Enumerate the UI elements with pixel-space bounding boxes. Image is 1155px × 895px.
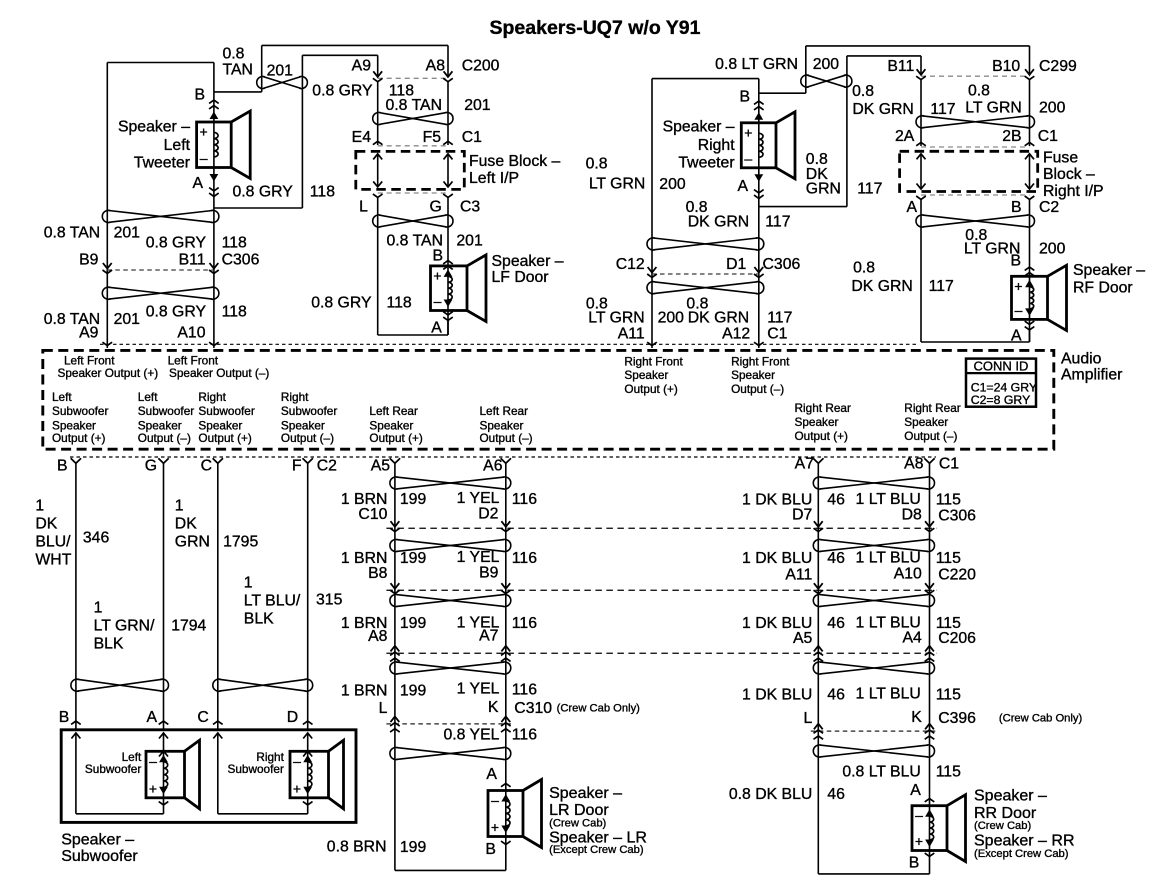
speaker U1: Left Tweeter symbol bbox=[197, 122, 232, 168]
wire: amp C to subwoofer box bbox=[217, 463, 219, 730]
wire: left rear speaker output (+) 1 BRN 199 bbox=[394, 463, 396, 870]
svg-text:+: + bbox=[491, 819, 499, 835]
svg-text:GRN: GRN bbox=[806, 180, 841, 197]
svg-text:116: 116 bbox=[512, 727, 537, 744]
svg-text:DK GRN: DK GRN bbox=[688, 310, 749, 327]
svg-text:Speaker Output (–): Speaker Output (–) bbox=[169, 366, 269, 380]
svg-text:Right: Right bbox=[198, 390, 226, 404]
wire: right rear speaker output (-) 1 LT BLU 115 bbox=[929, 463, 931, 874]
svg-text:C299: C299 bbox=[1039, 58, 1077, 75]
svg-text:TAN: TAN bbox=[223, 62, 253, 79]
svg-text:199: 199 bbox=[400, 615, 427, 632]
svg-text:DK GRN: DK GRN bbox=[852, 101, 913, 118]
svg-text:201: 201 bbox=[114, 311, 141, 328]
svg-text:L: L bbox=[804, 710, 813, 727]
svg-text:Speaker: Speaker bbox=[138, 418, 182, 432]
svg-text:A5: A5 bbox=[793, 630, 813, 647]
svg-text:A: A bbox=[906, 199, 917, 216]
svg-text:Speaker: Speaker bbox=[795, 415, 839, 429]
wire arrows entering subwoofer box bbox=[71, 733, 80, 739]
speaker: LR Door symbol bbox=[488, 791, 523, 837]
wire: LF door A return bbox=[447, 321, 449, 336]
svg-text:(Except Crew Cab): (Except Crew Cab) bbox=[974, 848, 1069, 860]
svg-text:200: 200 bbox=[1039, 100, 1066, 117]
svg-text:Output (+): Output (+) bbox=[795, 429, 849, 443]
svg-text:C1: C1 bbox=[1038, 128, 1058, 145]
svg-text:–: – bbox=[200, 150, 208, 166]
wire: LT GRN 200 down from B10 to fuse block 2B bbox=[1029, 80, 1031, 147]
svg-text:0.8 GRY: 0.8 GRY bbox=[311, 295, 372, 312]
svg-text:(Crew Cab Only): (Crew Cab Only) bbox=[557, 703, 641, 715]
svg-text:LT GRN: LT GRN bbox=[589, 176, 645, 193]
svg-text:0.8 GRY: 0.8 GRY bbox=[146, 235, 207, 252]
svg-text:1 DK BLU: 1 DK BLU bbox=[742, 687, 812, 704]
svg-text:Speaker –: Speaker – bbox=[663, 119, 735, 136]
svg-text:117: 117 bbox=[765, 213, 790, 230]
amp bottom mate line bbox=[70, 456, 936, 458]
svg-text:46: 46 bbox=[827, 615, 845, 632]
svg-text:C1: C1 bbox=[462, 129, 482, 146]
connector C310 mate line bbox=[386, 723, 514, 725]
svg-text:46: 46 bbox=[827, 492, 845, 509]
svg-text:Right Front: Right Front bbox=[624, 355, 683, 369]
svg-text:1794: 1794 bbox=[171, 618, 206, 635]
svg-text:C200: C200 bbox=[462, 57, 500, 74]
svg-text:Speaker: Speaker bbox=[904, 415, 948, 429]
wire: DK GRN 117 down from B11 to fuse block 2A bbox=[920, 80, 922, 147]
twisted pair LR row4 bbox=[396, 662, 504, 674]
wire: right rear speaker output (+) 1 DK BLU 46 bbox=[817, 463, 819, 874]
svg-text:0.8 TAN: 0.8 TAN bbox=[386, 97, 443, 114]
svg-text:C2: C2 bbox=[1039, 199, 1059, 216]
svg-text:Speaker –: Speaker – bbox=[118, 119, 190, 136]
svg-text:201: 201 bbox=[464, 97, 491, 114]
wire: run to connector C200 pin A9 bbox=[302, 54, 377, 56]
svg-text:DK: DK bbox=[175, 516, 197, 533]
svg-text:0.8: 0.8 bbox=[853, 259, 875, 276]
svg-text:B10: B10 bbox=[992, 58, 1020, 75]
svg-text:C306: C306 bbox=[763, 256, 801, 273]
svg-text:WHT: WHT bbox=[35, 552, 71, 569]
svg-text:0.8: 0.8 bbox=[586, 156, 608, 173]
svg-text:199: 199 bbox=[400, 683, 427, 700]
svg-text:118: 118 bbox=[310, 183, 335, 200]
svg-text:C12: C12 bbox=[616, 256, 645, 273]
svg-text:117: 117 bbox=[930, 101, 955, 118]
svg-text:A: A bbox=[431, 320, 442, 337]
svg-text:–: – bbox=[915, 807, 923, 823]
svg-text:A: A bbox=[910, 782, 921, 799]
svg-text:0.8: 0.8 bbox=[852, 83, 874, 100]
svg-text:A11: A11 bbox=[618, 326, 645, 343]
svg-text:Subwoofer: Subwoofer bbox=[52, 404, 108, 418]
fuse block right: top mate line bbox=[921, 146, 1030, 148]
wire: right rear bottom return bbox=[818, 873, 929, 875]
svg-text:115: 115 bbox=[936, 492, 961, 509]
svg-text:315: 315 bbox=[316, 592, 343, 609]
svg-text:Tweeter: Tweeter bbox=[678, 155, 734, 172]
svg-text:LT GRN/: LT GRN/ bbox=[94, 618, 155, 635]
svg-text:+: + bbox=[149, 780, 157, 796]
svg-text:Fuse: Fuse bbox=[1043, 149, 1078, 166]
svg-text:Speaker: Speaker bbox=[480, 418, 524, 432]
svg-text:D7: D7 bbox=[792, 506, 812, 523]
connector mate line row3 (A8/A7 - A5/A4) bbox=[386, 652, 936, 654]
twisted pair RR row4 bbox=[820, 662, 928, 674]
svg-text:(Crew Cab): (Crew Cab) bbox=[549, 817, 606, 829]
fuse block right: bottom mate line and terminals A B bbox=[921, 194, 1030, 196]
connector mate line row2 (B8/B9 - A11/A10) bbox=[386, 589, 936, 591]
svg-text:117: 117 bbox=[929, 278, 954, 295]
svg-text:Speaker –: Speaker – bbox=[61, 832, 134, 849]
svg-text:A7: A7 bbox=[479, 627, 498, 644]
wire: B down from right fuse to RF door B bbox=[1029, 199, 1031, 342]
svg-text:115: 115 bbox=[936, 764, 961, 781]
svg-text:199: 199 bbox=[400, 839, 427, 856]
svg-text:BLK: BLK bbox=[244, 611, 274, 628]
svg-text:C2: C2 bbox=[317, 458, 337, 475]
wire: subwoofer internal right loop bbox=[217, 733, 219, 814]
speaker: Left Subwoofer symbol bbox=[159, 751, 168, 757]
svg-text:–: – bbox=[1015, 302, 1023, 318]
svg-text:(Crew Cab): (Crew Cab) bbox=[974, 820, 1031, 832]
svg-text:200: 200 bbox=[1039, 240, 1066, 257]
svg-text:A12: A12 bbox=[722, 326, 750, 343]
wire: right tweeter B to twisted pair (0.8 LT GRN 200) bbox=[759, 92, 806, 94]
svg-text:B: B bbox=[194, 87, 205, 104]
svg-text:118: 118 bbox=[222, 235, 247, 252]
svg-text:1 LT BLU: 1 LT BLU bbox=[856, 686, 921, 703]
svg-text:C396: C396 bbox=[938, 710, 976, 727]
svg-text:B: B bbox=[432, 248, 443, 265]
wire: right side of right loop bbox=[758, 79, 760, 348]
svg-text:118: 118 bbox=[387, 295, 412, 312]
svg-text:Amplifier: Amplifier bbox=[1061, 367, 1122, 384]
svg-text:201: 201 bbox=[267, 63, 294, 80]
svg-text:Subwoofer: Subwoofer bbox=[85, 762, 141, 776]
svg-text:Left I/P: Left I/P bbox=[469, 170, 519, 187]
svg-text:Output (+): Output (+) bbox=[52, 431, 106, 445]
svg-text:LT GRN: LT GRN bbox=[588, 310, 644, 327]
svg-text:1: 1 bbox=[94, 600, 103, 617]
speaker subwoofer enclosure box bbox=[61, 730, 356, 823]
twisted pair LR row3 bbox=[396, 595, 504, 607]
wire: A down from right fuse to RF door return bbox=[920, 199, 922, 342]
svg-text:117: 117 bbox=[767, 310, 792, 327]
svg-text:Output (–): Output (–) bbox=[480, 431, 533, 445]
svg-text:201: 201 bbox=[114, 225, 141, 242]
svg-text:C1: C1 bbox=[939, 455, 959, 472]
svg-text:A4: A4 bbox=[902, 629, 922, 646]
svg-text:A: A bbox=[737, 178, 748, 195]
svg-text:116: 116 bbox=[512, 615, 537, 632]
wire: GRY 118 down from A9 to fuse block E4 bbox=[377, 82, 379, 145]
twisted pair RR row1 bbox=[820, 477, 928, 489]
svg-text:A: A bbox=[486, 766, 497, 783]
svg-text:A5: A5 bbox=[371, 458, 391, 475]
svg-text:Subwoofer: Subwoofer bbox=[61, 848, 138, 865]
svg-text:C3: C3 bbox=[460, 199, 480, 216]
twisted pair between C299 and 2A/2B bbox=[923, 116, 1029, 128]
twisted pair subwoofer left pair bbox=[77, 679, 162, 691]
svg-text:Output (+): Output (+) bbox=[624, 382, 678, 396]
svg-text:Speaker: Speaker bbox=[731, 368, 775, 382]
svg-text:L: L bbox=[379, 700, 388, 717]
speaker: Right Subwoofer symbol bbox=[303, 751, 312, 757]
wire: run to connector C299 pin B11 bbox=[847, 55, 921, 57]
svg-text:1 BRN: 1 BRN bbox=[341, 683, 388, 700]
twisted pair RR row5 bbox=[820, 745, 928, 757]
svg-text:201: 201 bbox=[456, 233, 483, 250]
wire: amp G to subwoofer box bbox=[163, 463, 165, 730]
svg-text:B11: B11 bbox=[887, 58, 914, 75]
svg-text:200: 200 bbox=[659, 176, 686, 193]
twisted pair RR row2 bbox=[820, 540, 928, 552]
wire: right tweeter A branch (0.8 DK GRN 117) bbox=[759, 206, 847, 208]
svg-text:Right I/P: Right I/P bbox=[1043, 183, 1104, 200]
svg-text:Right Rear: Right Rear bbox=[904, 401, 960, 415]
twisted pair LR row2 bbox=[396, 540, 504, 552]
wire: right side of left loop bbox=[213, 63, 215, 349]
twisted pair on right column (lower) bbox=[654, 282, 758, 294]
wire: left rear speaker output (-) 1 YEL 116 bbox=[505, 463, 507, 870]
svg-text:B: B bbox=[909, 855, 920, 872]
svg-text:D8: D8 bbox=[902, 506, 922, 523]
svg-text:Speaker –: Speaker – bbox=[974, 788, 1047, 805]
wire: left loop of right tweeter bbox=[651, 79, 653, 348]
svg-text:B: B bbox=[485, 841, 496, 858]
svg-text:Speaker Output (+): Speaker Output (+) bbox=[58, 366, 159, 380]
twisted pair LR row5 bbox=[396, 748, 504, 760]
connector mate line row1 (C10/D2 - D7/D8) bbox=[386, 527, 936, 529]
fuse block - right I/P dashed box bbox=[900, 151, 1038, 191]
speaker U2: Right Tweeter symbol bbox=[741, 123, 776, 168]
svg-text:Right Front: Right Front bbox=[731, 355, 790, 369]
svg-text:Right: Right bbox=[698, 137, 735, 154]
wire: L down to LF door A bbox=[377, 197, 379, 335]
svg-text:+: + bbox=[200, 124, 208, 140]
svg-text:D2: D2 bbox=[478, 505, 498, 522]
svg-text:A8: A8 bbox=[426, 57, 446, 74]
wire: top run to connector C200 pin A8 bbox=[262, 44, 448, 46]
twisted pair symbol right top bbox=[807, 75, 845, 87]
svg-text:LF Door: LF Door bbox=[492, 269, 549, 286]
svg-text:+: + bbox=[915, 833, 923, 849]
svg-text:0.8 LT BLU: 0.8 LT BLU bbox=[842, 764, 920, 781]
svg-text:K: K bbox=[911, 709, 922, 726]
svg-text:Output (–): Output (–) bbox=[281, 431, 334, 445]
svg-text:B11: B11 bbox=[179, 252, 206, 269]
svg-text:0.8: 0.8 bbox=[968, 82, 990, 99]
svg-text:118: 118 bbox=[222, 304, 247, 321]
svg-text:C10: C10 bbox=[358, 506, 387, 523]
svg-text:199: 199 bbox=[400, 550, 427, 567]
connector C306 mate line and terminals bbox=[107, 269, 214, 271]
wire: tweeter A branch to 0.8 GRY 118 bbox=[214, 207, 303, 209]
svg-text:Speakers-UQ7 w/o Y91: Speakers-UQ7 w/o Y91 bbox=[490, 17, 701, 39]
svg-text:F: F bbox=[292, 458, 302, 475]
amp entry mate line (A9..A12) bbox=[100, 343, 918, 345]
fuse block - left I/P dashed box bbox=[356, 151, 465, 189]
svg-text:C306: C306 bbox=[938, 507, 976, 524]
svg-text:Output (–): Output (–) bbox=[138, 431, 191, 445]
svg-text:Output (+): Output (+) bbox=[369, 431, 423, 445]
connector C306 right mate line and terminals bbox=[652, 273, 759, 275]
svg-text:0.8 DK BLU: 0.8 DK BLU bbox=[729, 786, 812, 803]
svg-text:Output (–): Output (–) bbox=[731, 382, 784, 396]
svg-text:Right: Right bbox=[281, 390, 309, 404]
svg-text:F5: F5 bbox=[423, 129, 442, 146]
svg-text:B9: B9 bbox=[79, 252, 99, 269]
svg-text:CONN ID: CONN ID bbox=[974, 359, 1029, 374]
svg-text:Subwoofer: Subwoofer bbox=[227, 762, 283, 776]
svg-text:1: 1 bbox=[175, 498, 184, 515]
svg-text:46: 46 bbox=[827, 550, 845, 567]
svg-text:1: 1 bbox=[35, 498, 44, 515]
svg-text:C306: C306 bbox=[222, 252, 260, 269]
svg-text:–: – bbox=[491, 792, 499, 808]
wire: tweeter B to twisted pair (0.8 TAN 201) bbox=[214, 91, 262, 93]
svg-text:C206: C206 bbox=[938, 630, 976, 647]
svg-text:–: – bbox=[434, 293, 442, 309]
svg-text:C2=8 GRY: C2=8 GRY bbox=[971, 393, 1031, 407]
svg-text:Speaker –: Speaker – bbox=[1073, 262, 1145, 279]
svg-text:0.8: 0.8 bbox=[223, 46, 245, 63]
svg-text:46: 46 bbox=[827, 687, 845, 704]
svg-text:A6: A6 bbox=[483, 458, 503, 475]
svg-text:Speaker: Speaker bbox=[281, 418, 325, 432]
svg-text:B: B bbox=[59, 709, 70, 726]
svg-text:46: 46 bbox=[827, 786, 845, 803]
svg-text:–: – bbox=[293, 753, 301, 769]
svg-text:C310: C310 bbox=[514, 700, 552, 717]
svg-text:+: + bbox=[1014, 278, 1022, 294]
svg-text:D1: D1 bbox=[726, 256, 746, 273]
twisted pair on left column (lower) bbox=[109, 287, 213, 299]
svg-text:Left: Left bbox=[138, 390, 158, 404]
twisted pair symbol: 0.8 TAN 201 / 0.8 GRY 118 bbox=[263, 77, 301, 89]
svg-text:Speaker: Speaker bbox=[198, 418, 242, 432]
svg-text:GRN: GRN bbox=[175, 534, 210, 551]
wire: amp F to subwoofer box bbox=[307, 463, 309, 730]
svg-text:0.8 BRN: 0.8 BRN bbox=[327, 839, 387, 856]
wire: amp B to subwoofer box bbox=[75, 463, 77, 730]
svg-text:A9: A9 bbox=[352, 57, 372, 74]
svg-text:0.8 LT GRN: 0.8 LT GRN bbox=[715, 56, 798, 73]
svg-text:K: K bbox=[488, 699, 499, 716]
svg-text:0.8 GRY: 0.8 GRY bbox=[146, 304, 207, 321]
svg-text:D: D bbox=[287, 709, 298, 726]
svg-text:A: A bbox=[146, 709, 157, 726]
svg-text:Fuse Block –: Fuse Block – bbox=[469, 153, 561, 170]
svg-text:B9: B9 bbox=[479, 565, 499, 582]
CONN ID table bbox=[966, 359, 1036, 407]
svg-text:200: 200 bbox=[813, 56, 840, 73]
svg-text:1795: 1795 bbox=[223, 534, 258, 551]
svg-text:Subwoofer: Subwoofer bbox=[138, 404, 194, 418]
svg-text:Subwoofer: Subwoofer bbox=[281, 404, 337, 418]
svg-text:DK: DK bbox=[35, 516, 57, 533]
audio amplifier dashed box bbox=[43, 350, 1054, 449]
svg-text:A11: A11 bbox=[785, 567, 812, 584]
svg-text:B: B bbox=[739, 89, 750, 106]
svg-text:0.8 YEL: 0.8 YEL bbox=[443, 727, 499, 744]
svg-text:A10: A10 bbox=[177, 325, 205, 342]
svg-text:B8: B8 bbox=[368, 565, 388, 582]
svg-text:C: C bbox=[201, 458, 212, 475]
svg-text:200: 200 bbox=[658, 310, 685, 327]
svg-text:116: 116 bbox=[512, 550, 537, 567]
svg-text:BLK: BLK bbox=[94, 636, 124, 653]
svg-text:1: 1 bbox=[244, 575, 253, 592]
svg-text:0.8 TAN: 0.8 TAN bbox=[44, 225, 101, 242]
svg-text:Speaker: Speaker bbox=[624, 368, 668, 382]
svg-text:A7: A7 bbox=[795, 455, 814, 472]
svg-text:116: 116 bbox=[512, 682, 537, 699]
svg-text:Speaker: Speaker bbox=[369, 418, 413, 432]
svg-text:A10: A10 bbox=[894, 566, 922, 583]
svg-text:Output (–): Output (–) bbox=[904, 429, 957, 443]
wire: RF door A return bbox=[1029, 330, 1031, 342]
svg-text:A: A bbox=[192, 175, 203, 192]
twisted pair below right fuse block bbox=[923, 215, 1029, 227]
fuse block left: feed-through arrows bbox=[377, 154, 379, 186]
svg-text:+: + bbox=[744, 124, 752, 140]
speaker: LF Door symbol bbox=[431, 266, 468, 311]
twisted pair symbol between A9/A8 and E4/F5 bbox=[379, 113, 446, 125]
fuse block left: top mate line bbox=[378, 145, 448, 147]
svg-text:G: G bbox=[145, 458, 157, 475]
svg-text:E4: E4 bbox=[352, 129, 372, 146]
wire: G down to LF door B bbox=[447, 197, 449, 335]
svg-text:BLU/: BLU/ bbox=[35, 534, 71, 551]
twisted pair LR row1 bbox=[396, 477, 504, 489]
svg-text:117: 117 bbox=[857, 180, 882, 197]
svg-text:Audio: Audio bbox=[1061, 351, 1102, 368]
amp bottom terminals B G C F C2 A5 A6 A7 A8 C1 bbox=[71, 458, 81, 463]
svg-text:B: B bbox=[1011, 199, 1022, 216]
twisted pair below left fuse block bbox=[379, 215, 446, 227]
wire: top run to connector C299 pin B10 bbox=[806, 45, 1030, 47]
svg-text:DK GRN: DK GRN bbox=[851, 278, 912, 295]
svg-text:1 LT BLU: 1 LT BLU bbox=[856, 549, 921, 566]
fuse block right: feed-through arrows bbox=[920, 154, 922, 188]
svg-text:115: 115 bbox=[936, 687, 961, 704]
fuse block left: bottom mate line and terminals L G bbox=[378, 192, 448, 194]
svg-text:C220: C220 bbox=[938, 567, 976, 584]
svg-text:Output (+): Output (+) bbox=[198, 431, 252, 445]
connector C299 mate line and terminals bbox=[921, 75, 1030, 77]
svg-text:Subwoofer: Subwoofer bbox=[198, 404, 254, 418]
svg-text:–: – bbox=[744, 150, 752, 166]
svg-text:A9: A9 bbox=[79, 325, 99, 342]
svg-text:Block –: Block – bbox=[1043, 166, 1095, 183]
svg-text:Speaker –: Speaker – bbox=[492, 253, 564, 270]
svg-text:+: + bbox=[293, 780, 301, 796]
svg-text:G: G bbox=[430, 199, 442, 216]
svg-text:1 DK BLU: 1 DK BLU bbox=[742, 550, 812, 567]
connector C396 mate line bbox=[811, 730, 937, 732]
svg-text:C: C bbox=[197, 709, 208, 726]
svg-text:L: L bbox=[359, 199, 368, 216]
svg-text:C1: C1 bbox=[767, 326, 787, 343]
svg-text:Speaker – RR: Speaker – RR bbox=[974, 832, 1075, 849]
svg-text:–: – bbox=[149, 753, 157, 769]
svg-text:346: 346 bbox=[83, 530, 110, 547]
svg-text:Left Rear: Left Rear bbox=[480, 404, 529, 418]
svg-text:Speaker –: Speaker – bbox=[549, 785, 622, 802]
svg-text:(Except Crew Cab): (Except Crew Cab) bbox=[549, 844, 644, 856]
